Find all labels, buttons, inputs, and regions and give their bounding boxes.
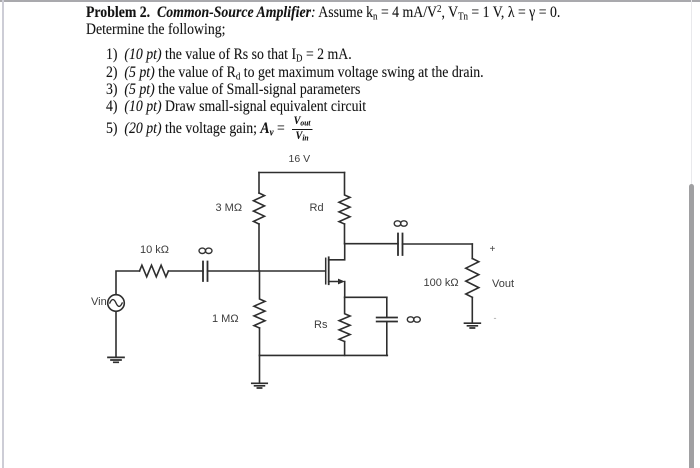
scrollbar thumb: [689, 184, 694, 468]
ground G2 under Vin: [108, 357, 124, 362]
wire cap to output node: [403, 243, 473, 245]
capacitor C2 output coupling: [398, 234, 403, 256]
resistor 1M (1 MOhm bias): [254, 271, 265, 328]
wire drain lead: [329, 244, 345, 260]
label inf output cap: [394, 221, 407, 226]
label inf bypass cap: [407, 317, 420, 322]
top border line: [0, 0, 700, 2]
resistor RL 100k: [466, 259, 479, 298]
source V1 sine: [110, 300, 122, 307]
ground G3 under 100k: [465, 297, 481, 328]
left border line: [2, 0, 4, 468]
wire Vin up to input: [116, 271, 140, 295]
capacitor C1 input coupling: [203, 262, 208, 282]
ground G1 mid: [252, 355, 267, 388]
wire source lead: [329, 282, 345, 298]
wire bypass branch lower: [386, 322, 388, 356]
wire bypass branch upper: [386, 297, 388, 317]
heading line 2: [86, 21, 225, 38]
list item 1: [106, 46, 352, 63]
label inf input cap: [199, 248, 212, 253]
label 10 kOhm: [140, 244, 169, 256]
label minus faint: [494, 313, 497, 323]
source V1 Vin circle: [108, 295, 125, 312]
label Rd: [310, 202, 324, 214]
wire drain node to coupling cap: [345, 243, 398, 245]
wire 10k to cap: [168, 270, 203, 272]
label Vout: [492, 278, 514, 290]
wire gate line: [208, 270, 326, 272]
list item 5: [106, 116, 312, 143]
resistor Rs: [339, 297, 350, 341]
capacitor C3 bypass: [377, 318, 397, 322]
resistor Rd: [339, 173, 350, 225]
label 3 MOhm: [216, 202, 243, 214]
wire Vin down to ground: [115, 311, 117, 356]
wire source node: [345, 296, 387, 298]
wire output node down: [471, 244, 473, 259]
list item 3: [106, 81, 360, 98]
label 1 MOhm: [212, 313, 239, 325]
problem heading line 1: [86, 4, 560, 21]
transistor Q1 source arrow: [338, 279, 345, 285]
node bottom rail wire: [260, 354, 388, 356]
wire Rd to drain node: [344, 224, 346, 244]
scrollbar track: [691, 0, 693, 468]
resistor Rsig 10k: [140, 265, 169, 277]
label plus: [490, 244, 496, 255]
resistor 3M (3 MOhm bias): [254, 193, 265, 224]
list item 4: [106, 98, 366, 115]
transistor Q1 channel bar: [328, 257, 330, 284]
list item 2: [106, 64, 484, 81]
label 16 V: [289, 153, 311, 165]
wire 1M to bottom rail: [259, 328, 261, 355]
label Vin: [91, 296, 107, 308]
transistor Q1 NMOS gate bar: [325, 258, 327, 284]
node VDD top rail wire: [259, 172, 345, 174]
wire 3M top lead: [258, 173, 260, 194]
label Rs: [314, 319, 327, 331]
wire 3M bottom lead to gate node: [258, 224, 260, 271]
wire Rs to rail: [344, 342, 346, 356]
label 100 kOhm: [424, 277, 459, 289]
